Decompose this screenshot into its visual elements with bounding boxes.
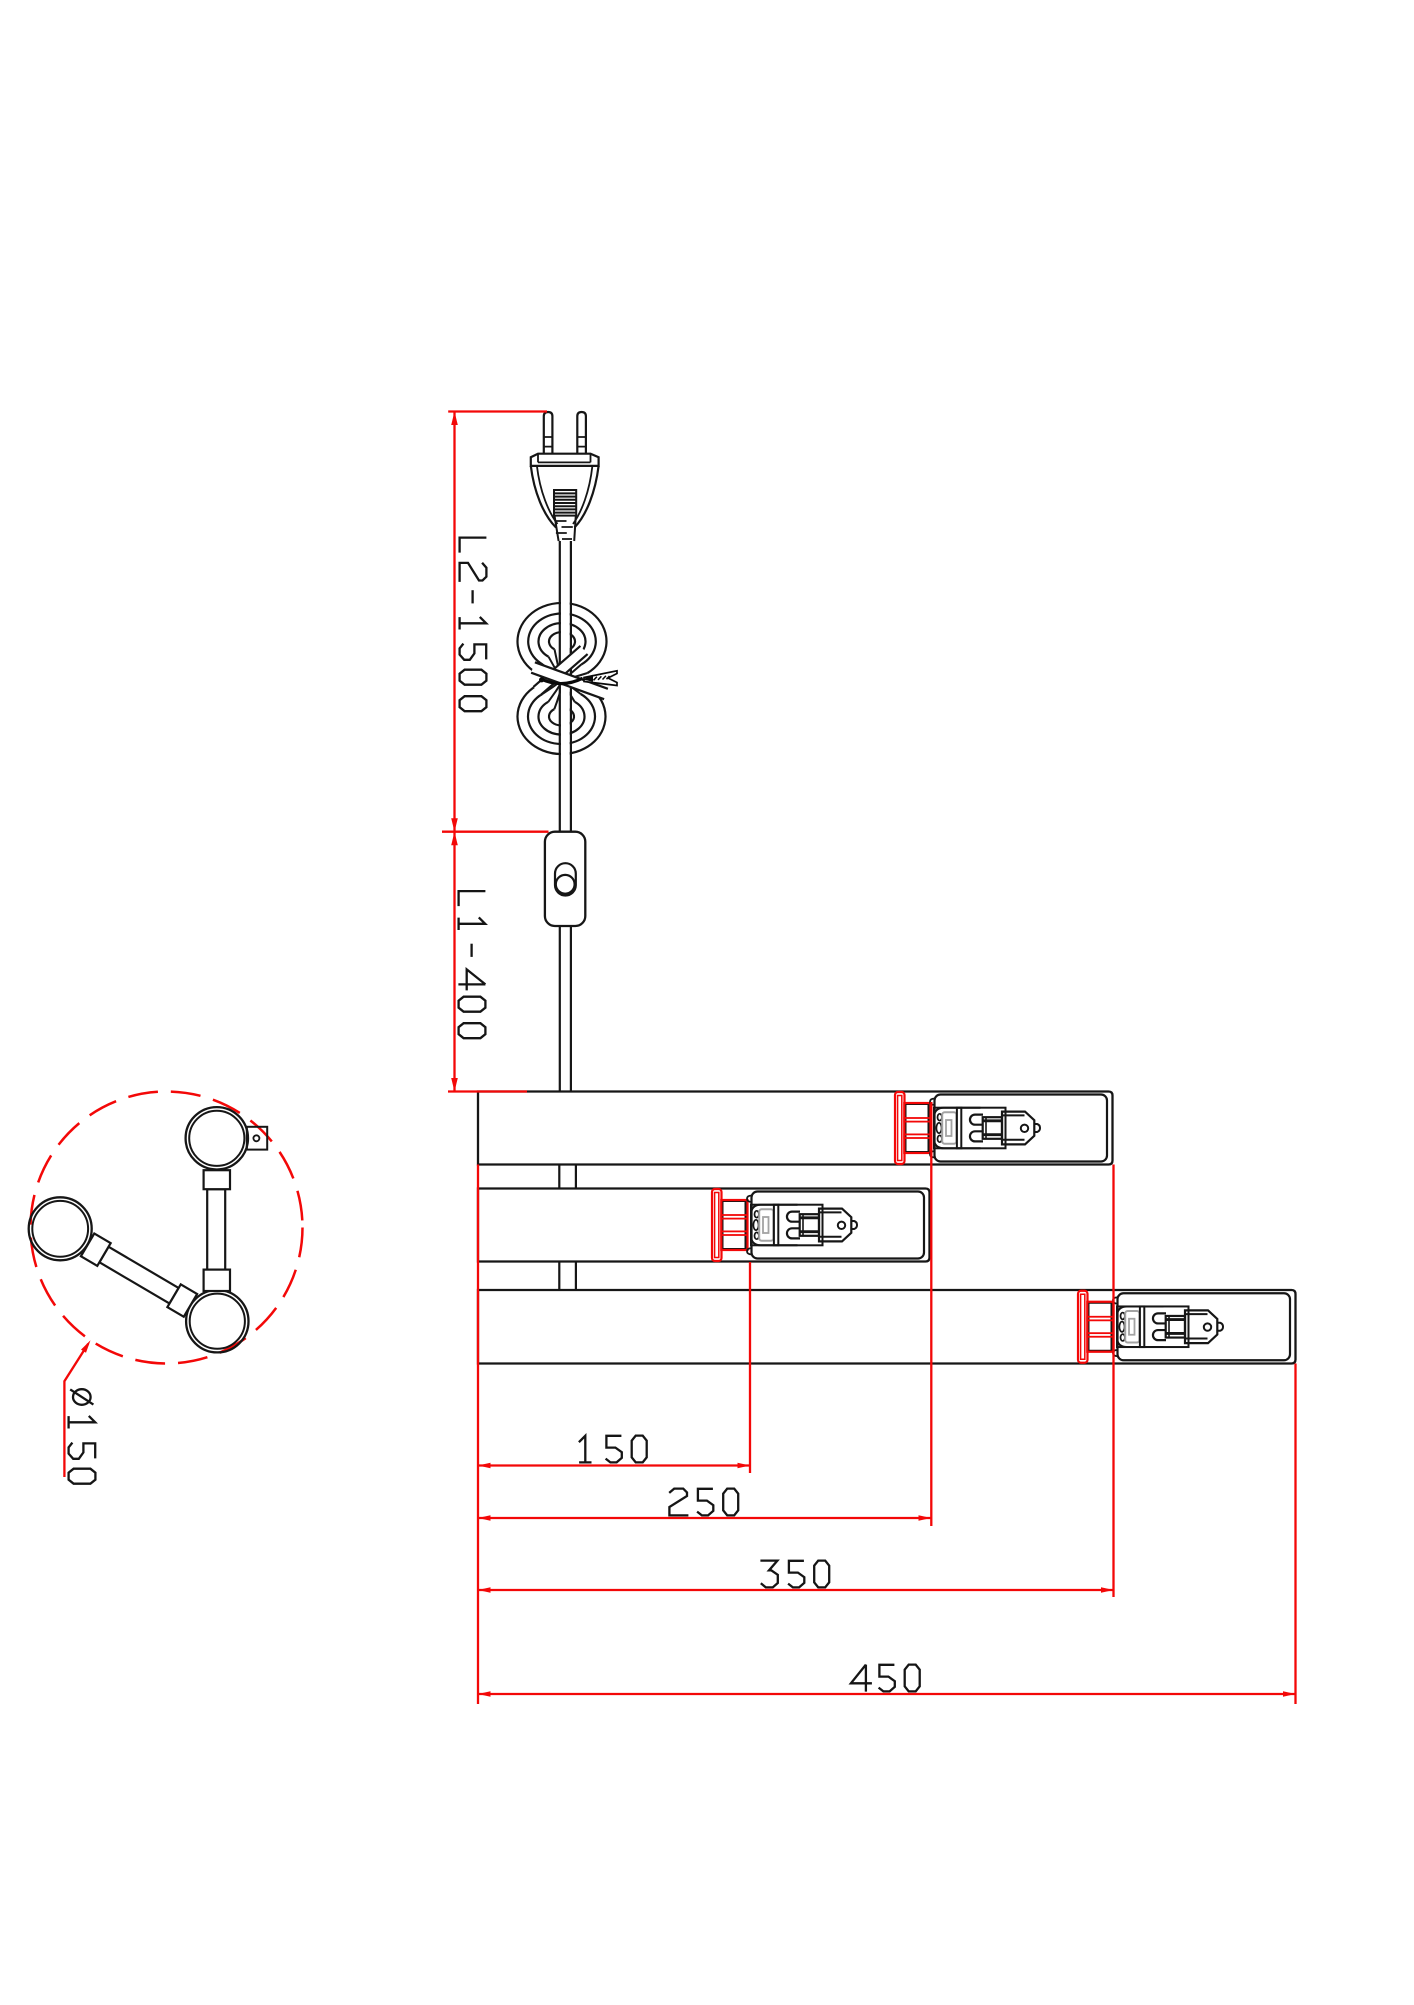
arrows 150 <box>478 1463 491 1469</box>
dim line 150 <box>478 1464 750 1466</box>
socket assembly bar 1 <box>895 1092 1107 1164</box>
bar 2 <box>478 1189 930 1262</box>
dim L2 line <box>453 412 455 832</box>
extension line x931 <box>930 1102 932 1526</box>
detail leader arrow <box>81 1340 91 1353</box>
arrow L1 down <box>451 1078 458 1092</box>
arrows 450 <box>478 1691 491 1697</box>
dim L2 extension top <box>448 410 547 412</box>
switch button knob <box>556 875 575 894</box>
arm vertical <box>204 1170 230 1291</box>
arrow L1 up <box>451 832 458 846</box>
cord tie wrap <box>541 678 582 683</box>
dim L1 extension bottom (over bar1 top) <box>448 1090 527 1092</box>
shade circle bottom <box>186 1290 248 1352</box>
arrows 350 <box>478 1587 491 1593</box>
label 150 <box>579 1436 647 1463</box>
cord coil lower loop <box>518 686 606 754</box>
label 450 <box>851 1665 920 1692</box>
rod bar1-bar2 <box>559 1165 576 1189</box>
detail leader line <box>64 1344 88 1477</box>
extension line x1113.5 <box>1112 1165 1114 1598</box>
extension line x1295.5 <box>1294 1364 1296 1705</box>
shade circle top <box>186 1107 248 1169</box>
dim L1 line <box>453 832 455 1092</box>
switch button capsule <box>555 863 576 895</box>
plug prong right <box>577 412 586 454</box>
label 250 <box>669 1489 738 1516</box>
label L2-1500 <box>460 538 487 712</box>
socket assembly bar 3 <box>1078 1291 1290 1363</box>
coil back band <box>533 646 587 695</box>
plug collar <box>531 454 599 466</box>
shade circle left <box>29 1197 92 1260</box>
arrows 250 <box>478 1515 491 1521</box>
extension line x750 <box>749 1262 751 1473</box>
arrow L2 down <box>451 818 458 832</box>
cord vertical through coil <box>561 541 570 832</box>
cord coil upper loop <box>517 603 606 673</box>
coil front band <box>531 662 608 699</box>
coil crossing strands <box>536 649 587 709</box>
dim line 350 <box>478 1589 1114 1591</box>
dim line 250 <box>478 1517 931 1519</box>
arm diagonal <box>81 1234 197 1317</box>
socket assembly bar 2 <box>712 1189 924 1261</box>
extension line x478 <box>477 1165 479 1705</box>
dim line 450 <box>478 1693 1296 1695</box>
detail dashed circle <box>31 1092 303 1364</box>
cord below switch <box>560 926 571 1092</box>
plug body <box>531 466 556 528</box>
label L1-400 <box>458 891 485 1038</box>
plug prong left <box>544 412 553 454</box>
dim L1/L2 boundary <box>442 831 549 833</box>
inline switch body <box>545 832 585 926</box>
shade bracket <box>247 1127 267 1150</box>
rod bar2-bar3 <box>559 1262 576 1291</box>
bar 1 <box>478 1092 1113 1165</box>
tie knot wedge <box>583 675 594 682</box>
plug strain relief ribs <box>554 490 576 516</box>
plug strain relief lower <box>555 516 576 541</box>
label 350 <box>760 1561 829 1588</box>
bar 3 <box>478 1290 1296 1364</box>
tie ribbon ends <box>584 671 617 686</box>
arrow L2 up <box>451 412 458 426</box>
label diameter 150 <box>69 1389 96 1484</box>
